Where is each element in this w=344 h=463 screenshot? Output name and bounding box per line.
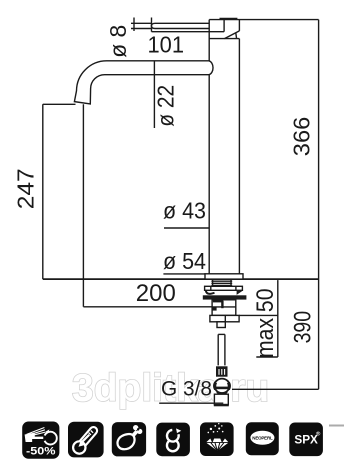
dimension line 200 (83, 306, 213, 308)
hose end piece (214, 394, 228, 404)
icon water saving -50% (22, 422, 59, 459)
extension line spout tip (247) (43, 103, 76, 105)
gasket plate (203, 295, 247, 299)
label o8 (13, 25, 317, 401)
svg-text:SPX: SPX (294, 434, 318, 447)
svg-text:ø 8: ø 8 (105, 25, 131, 58)
svg-text:200: 200 (136, 280, 176, 307)
svg-text:-50%: -50% (26, 446, 56, 458)
flexible hose tube (218, 334, 225, 365)
dimension line 247 (42, 104, 44, 279)
watermark dash right (329, 425, 344, 427)
svg-text:ø 22: ø 22 (152, 85, 178, 127)
icon neoperl (246, 422, 279, 455)
lever handle bar (151, 23, 209, 28)
extension line top (366) (209, 19, 318, 21)
dimension line o8 (133, 18, 135, 32)
o22 leader line (153, 61, 155, 128)
icon thermometer (68, 422, 104, 458)
icon SPX (289, 423, 323, 457)
G3/8 leader underline (159, 402, 223, 404)
icon o-ring cartridge (156, 423, 190, 457)
extension line bottom (390) (232, 388, 319, 390)
icon swivel drumstick (112, 422, 146, 456)
extension line max50 bottom (239, 314, 278, 316)
lever mount block (209, 19, 239, 39)
o54 leader line (163, 273, 205, 275)
svg-text:247: 247 (13, 168, 39, 209)
svg-text:max 50: max 50 (252, 289, 279, 359)
svg-text:NEOPERL: NEOPERL (252, 435, 273, 440)
hose knurled collar (216, 366, 228, 376)
o43 leader line (164, 227, 209, 229)
countertop line (43, 278, 319, 280)
spout tip center line (82, 104, 84, 306)
svg-text:G 3/8: G 3/8 (161, 377, 212, 400)
faucet body left edge (208, 20, 210, 274)
o8 extension top (131, 22, 152, 24)
dimension line 101 (152, 31, 225, 33)
watermark 3dplitka.ru (72, 367, 269, 410)
icon diamond (200, 422, 234, 456)
spout (74, 61, 213, 104)
svg-text:390: 390 (290, 311, 317, 344)
svg-text:366: 366 (288, 117, 314, 157)
dimension line 366/390 (318, 20, 320, 390)
shank tab (217, 322, 225, 328)
svg-text:101: 101 (148, 31, 185, 57)
dimension line max50 (277, 280, 279, 357)
svg-text:ø 43: ø 43 (163, 198, 206, 224)
horseshoe washer (205, 286, 243, 290)
faucet body right edge (238, 20, 240, 31)
dimension 101 extension (151, 18, 153, 32)
mounting nut (210, 315, 239, 321)
mounting body box (212, 300, 236, 316)
base flange (205, 274, 243, 279)
max50 underline (256, 356, 278, 358)
svg-text:ø 54: ø 54 (163, 248, 206, 274)
o8 extension bottom (131, 28, 152, 30)
hose nut G3/8 (214, 379, 229, 393)
threaded shank (213, 279, 231, 286)
